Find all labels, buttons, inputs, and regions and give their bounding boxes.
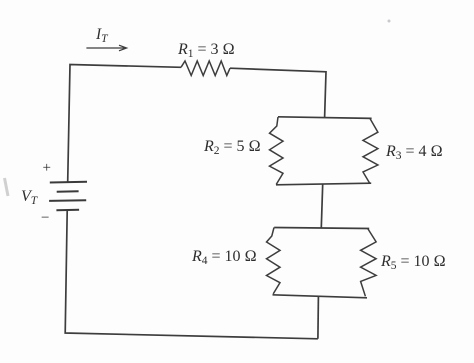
svg-text:IT: IT — [95, 26, 109, 45]
resistor R4 — [267, 228, 281, 294]
current arrow — [86, 45, 126, 51]
svg-text:−: − — [41, 210, 49, 226]
svg-text:R1 = 3 Ω: R1 = 3 Ω — [177, 41, 235, 60]
battery VT plate long top — [50, 181, 87, 184]
node top rail R2 R3 — [278, 117, 372, 119]
svg-text:R4 = 10 Ω: R4 = 10 Ω — [191, 248, 257, 267]
node bottom rail R2 R3 — [276, 183, 371, 185]
svg-text:R2 = 5 Ω: R2 = 5 Ω — [203, 138, 261, 157]
battery VT plate short upper — [57, 190, 79, 193]
resistor R2 — [270, 117, 284, 185]
speck artifact — [388, 20, 391, 23]
resistor R3 — [363, 118, 378, 183]
resistor R5 — [361, 229, 377, 297]
svg-text:R3 = 4 Ω: R3 = 4 Ω — [385, 143, 443, 162]
wire middle junction — [321, 184, 322, 227]
wire bottom return — [65, 211, 318, 339]
wire bottom-right — [317, 297, 320, 339]
node top rail R4 R5 — [274, 228, 369, 229]
battery VT plate short bottom — [56, 209, 79, 212]
svg-text:R5 = 10 Ω: R5 = 10 Ω — [380, 253, 446, 272]
node bottom rail R4 R5 — [273, 295, 368, 298]
battery VT plate long lower — [49, 199, 86, 202]
wire top-left from battery to R1 — [68, 65, 181, 183]
resistor R1 — [181, 61, 230, 76]
svg-text:VT: VT — [21, 188, 39, 207]
wire top-right — [230, 68, 326, 117]
svg-text:+: + — [43, 160, 51, 176]
smudge artifact — [5, 178, 9, 196]
